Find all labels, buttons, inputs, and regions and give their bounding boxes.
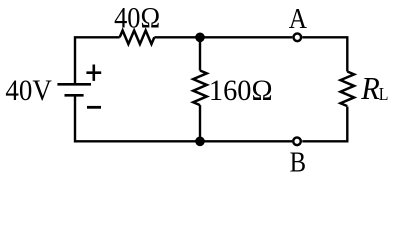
wire bottom segment with left corner — [75, 95, 292, 141]
junction dot top — [195, 33, 205, 43]
svg-text:A: A — [289, 3, 308, 35]
battery V1 top plate (long, +) — [57, 83, 91, 86]
wire top-middle segment — [154, 36, 292, 38]
resistor R 40ohm zigzag — [120, 30, 155, 44]
svg-text:L: L — [379, 84, 389, 104]
terminal B open circle — [293, 138, 301, 146]
svg-text:40Ω: 40Ω — [114, 2, 160, 35]
wire top-right segment with corner — [302, 37, 347, 71]
resistor RL zigzag — [340, 72, 354, 107]
svg-text:R: R — [360, 70, 380, 106]
battery minus sign — [87, 106, 101, 109]
wire top-left segment with corner — [75, 37, 120, 84]
wire middle-top segment — [199, 37, 201, 70]
junction dot bottom — [195, 137, 205, 147]
battery plus sign — [86, 65, 101, 81]
svg-text:160Ω: 160Ω — [209, 74, 273, 107]
svg-text:40V: 40V — [5, 75, 52, 108]
svg-text:B: B — [290, 147, 306, 178]
resistor 160ohm zigzag — [193, 71, 207, 106]
terminal A open circle — [294, 34, 302, 42]
wire middle-bottom segment — [199, 105, 201, 141]
battery V1 bottom plate (short, -) — [65, 94, 84, 97]
wire bottom-right segment with corner — [302, 107, 347, 142]
